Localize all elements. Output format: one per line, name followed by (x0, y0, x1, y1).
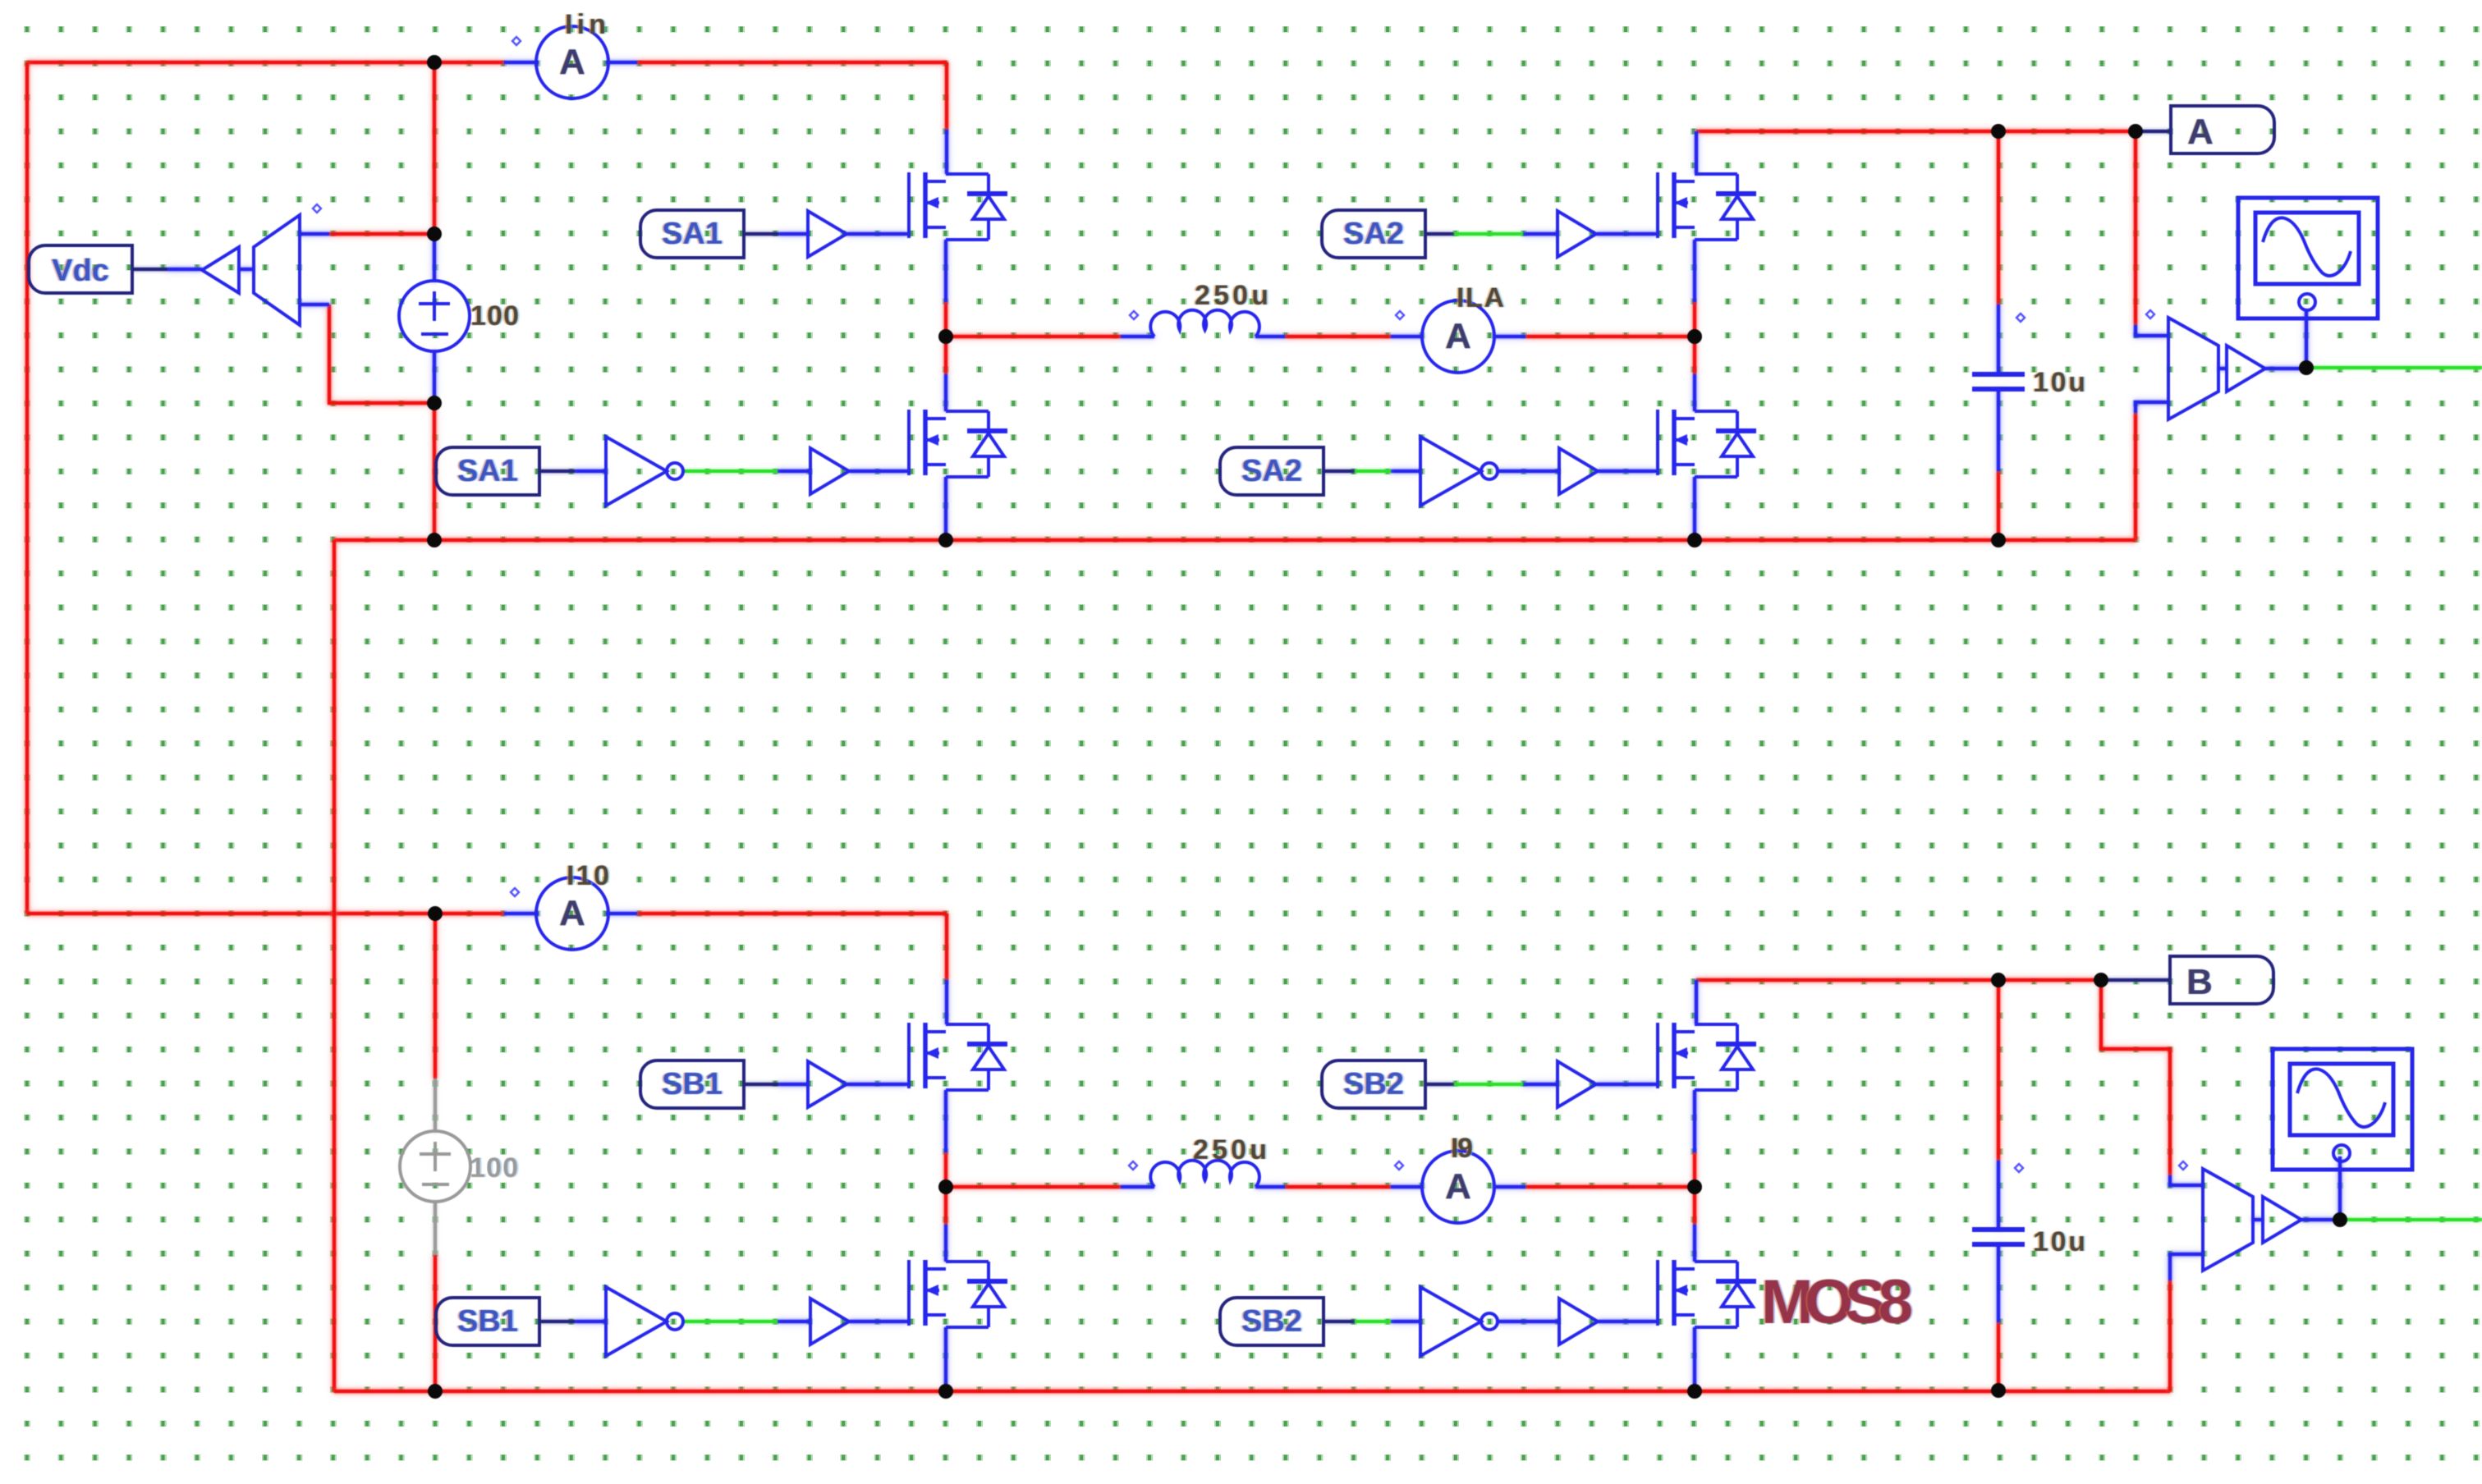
svg-text:I10: I10 (567, 860, 609, 891)
svg-text:MOS8: MOS8 (1761, 1267, 1913, 1337)
wire SA2 inv in (1391, 469, 1420, 473)
wire SA1 low green (683, 469, 778, 473)
wire SA1 low buffer in (778, 469, 810, 473)
mosfet Q7 (1658, 1023, 1756, 1090)
wire pin sensor VS2 minus (2136, 402, 2168, 413)
buffer SA2 (1558, 211, 1596, 257)
wire SA2 label stub (1425, 232, 1454, 236)
wire SA1 inv in (575, 469, 606, 473)
wire pin ammeter ILA left (1391, 335, 1424, 338)
label SB1 (640, 1060, 744, 1108)
svg-text:100: 100 (470, 1152, 518, 1184)
wire pin leg B1 low drain (944, 1225, 947, 1262)
wire pin leg A2 drain (1695, 131, 1698, 174)
wire cap C1 top column (1997, 131, 2000, 305)
label SA2 low (1220, 447, 1324, 495)
inductor L1 (1150, 310, 1259, 337)
wire probe A to scope (2305, 309, 2308, 369)
wire pin cap C2 top (1997, 1161, 2000, 1230)
wire SA2 green (1454, 232, 1523, 236)
mosfet Q5 (909, 1023, 1007, 1090)
wire SA2 gate (1596, 232, 1656, 236)
junction node 20 (2094, 973, 2108, 987)
junction node 6 (938, 533, 953, 547)
marker ILA (1396, 311, 1404, 319)
svg-text:SB2: SB2 (1343, 1067, 1404, 1102)
wire border to I10 row (27, 912, 504, 915)
wire SB1 inv in (575, 1320, 606, 1323)
inductor L2 (1150, 1161, 1259, 1187)
junction node 11 (1991, 533, 2006, 547)
mosfet Q1 (909, 172, 1007, 240)
wire V2 top column (434, 914, 437, 1079)
capacitor C2 (1972, 1230, 2025, 1244)
wire I10 row to bridge B (637, 914, 947, 980)
voltage sensor VS2 (2168, 318, 2218, 419)
junction node 8 (1687, 533, 1702, 547)
wire SB2 low buffer in (1498, 1320, 1559, 1323)
wire leg B2 mid upper (1693, 1152, 1696, 1187)
wire ammeter I9 to leg B2 (1525, 1185, 1695, 1189)
wire pin leg B2 drain (1695, 980, 1698, 1024)
mosfet Q4 (1658, 410, 1756, 477)
junction node 2 (427, 227, 442, 241)
wire pin inductor L2 right (1255, 1185, 1285, 1189)
wire pin leg B2 low drain (1693, 1225, 1696, 1262)
wire pin leg B2 source (1693, 1090, 1696, 1152)
wire sensor VS1 out (239, 268, 254, 271)
voltage sensor VS3 (2203, 1169, 2253, 1271)
junction node 18 (1687, 1384, 1702, 1399)
svg-text:SA1: SA1 (662, 217, 723, 251)
gain U1 (202, 247, 239, 293)
wire probe B to scope (2338, 1157, 2342, 1220)
wire sensor VS1 plus to node (329, 232, 434, 236)
svg-text:SB2: SB2 (1241, 1304, 1302, 1339)
junction node 4 (427, 533, 442, 547)
wire gain A out (2265, 367, 2306, 370)
wire top dc+ bus right of ammeter Iin (637, 62, 947, 130)
wire pin V1 minus (433, 350, 436, 403)
wire output A signal (2306, 366, 2482, 369)
wire SB2 green (1454, 1083, 1523, 1086)
wire pin cap C1 top (1997, 305, 2000, 374)
wire top rail A right (1696, 130, 2136, 133)
junction node 22 (2333, 1212, 2347, 1227)
wire Vdc label stub (132, 268, 167, 271)
marker VS2 (2146, 310, 2154, 318)
wire inductor to ammeter ILA (1285, 335, 1391, 338)
svg-text:B: B (2186, 962, 2213, 1002)
wire SB1 label stub (744, 1083, 778, 1086)
wire cap C2 top column (1997, 980, 2000, 1161)
junction node 12 (2299, 360, 2314, 375)
label node B (2170, 956, 2273, 1004)
svg-text:A: A (2187, 112, 2214, 152)
mosfet Q3 (1658, 172, 1756, 240)
wire pin cap C1 bottom (1997, 389, 2000, 471)
wire phase B to inductor (946, 1185, 1121, 1189)
wire SB1 low buffer in (778, 1320, 810, 1323)
junction node 5 (938, 329, 953, 344)
buffer SA2 low (1559, 448, 1598, 494)
wire SB2 low label stub (1324, 1320, 1355, 1323)
svg-text:SA2: SA2 (1241, 454, 1302, 488)
svg-text:I9: I9 (1451, 1133, 1473, 1164)
wire pin leg B1 drain (945, 980, 948, 1024)
marker L1 (1130, 311, 1138, 319)
marker Iin (512, 37, 521, 45)
wire leg B1 mid lower (944, 1187, 947, 1225)
wire negative bus drop (333, 540, 336, 1391)
wire Vdc gain in (167, 268, 202, 271)
wire SA1 low label stub (539, 469, 575, 473)
wire ammeter ILA to leg A2 (1525, 335, 1695, 338)
inverter SB2 (1420, 1287, 1498, 1356)
marker VS3 (2179, 1161, 2187, 1170)
buffer SB1 low (810, 1298, 849, 1344)
wire pin ammeter Iin right (606, 61, 637, 64)
wire SA2 low green (1355, 469, 1391, 473)
wire sensor VS3 to gain (2252, 1218, 2263, 1221)
wire output B signal (2340, 1218, 2482, 1221)
wire cap C1 bottom column (1997, 471, 2000, 540)
junction node 1 (427, 55, 442, 70)
svg-text:10u: 10u (2033, 1226, 2085, 1257)
wire sensor VS1 minus path (329, 305, 434, 403)
wire pin sensor VS3 plus (2170, 1175, 2203, 1185)
wire pin leg A2 source (1693, 240, 1696, 302)
marker I9 (1395, 1161, 1403, 1170)
wire pin ammeter I9 right (1493, 1185, 1525, 1189)
wire SA1 low gate (849, 469, 907, 473)
wire bottom rail B (334, 1390, 2170, 1393)
wire pin leg B1 source (944, 1090, 947, 1152)
wire pin V1 plus (433, 234, 436, 282)
wire leg A1 mid lower (944, 337, 947, 374)
wire pin leg A2 low drain (1693, 374, 1696, 411)
wire rail to sensor VS2 bottom (2134, 413, 2137, 540)
wire leg A1 mid upper (944, 302, 947, 337)
gain B (2263, 1197, 2301, 1243)
ammeter ILA (1422, 300, 1494, 373)
wire cap C2 bottom column (1997, 1322, 2000, 1391)
scope B (2273, 1049, 2412, 1170)
wire SB1 gate (846, 1083, 907, 1086)
wire pin leg B1 low source (944, 1327, 947, 1391)
wire pin inductor L2 left (1121, 1185, 1154, 1189)
inverter SA2 (1420, 437, 1498, 506)
wire SB2 gate (1596, 1083, 1656, 1086)
wire SA2 low gate (1598, 469, 1656, 473)
capacitor C1 (1972, 374, 2025, 389)
svg-text:SA1: SA1 (457, 454, 518, 488)
wire left border dc+ down (25, 62, 29, 914)
wire SB2 buffer in (1523, 1083, 1558, 1086)
wire SB1 low gate (849, 1320, 907, 1323)
wire top rail B right (1696, 978, 2101, 982)
scope A (2238, 198, 2378, 318)
junction node 14 (428, 1384, 443, 1399)
wire phase A to inductor (946, 335, 1121, 338)
wire node A to sensor VS2 top (2134, 131, 2137, 325)
gain A (2227, 346, 2265, 392)
voltage sensor VS1 (254, 215, 300, 325)
marker C1 (2016, 314, 2025, 322)
buffer SB1 (808, 1061, 846, 1107)
junction node 13 (428, 906, 443, 921)
svg-text:SA2: SA2 (1343, 217, 1404, 251)
wire SA1 label stub (744, 232, 778, 236)
junction node 7 (1687, 329, 1702, 344)
wire SB1 low label stub (539, 1320, 575, 1323)
ammeter Iin (536, 26, 608, 98)
wire pin ammeter I10 left (504, 912, 539, 915)
svg-text:ILA: ILA (1457, 282, 1504, 314)
wire SA1 gate (846, 232, 907, 236)
wire SA2 buffer in (1523, 232, 1558, 236)
svg-text:Vdc: Vdc (52, 254, 109, 288)
wire SB1 low green (683, 1320, 778, 1323)
wire pin leg B2 low source (1693, 1327, 1696, 1391)
junction node 19 (1991, 973, 2006, 987)
label Vdc (29, 245, 132, 293)
wire pin leg A1 source (944, 240, 947, 302)
svg-text:SB1: SB1 (457, 1304, 518, 1339)
wire SA2 low label stub (1324, 469, 1355, 473)
marker C2 (2015, 1164, 2023, 1172)
wire pin leg A1 low drain (944, 374, 947, 411)
buffer SA1 low (810, 448, 849, 494)
junction node 15 (938, 1179, 953, 1194)
label SA1 low (436, 447, 539, 495)
buffer SB2 low (1559, 1298, 1598, 1344)
wire V2 bottom to rail B (434, 1255, 437, 1391)
wire pin leg A1 drain (945, 130, 948, 174)
junction node 10 (2128, 124, 2143, 139)
svg-text:10u: 10u (2033, 367, 2085, 398)
junction node 17 (1687, 1179, 1702, 1194)
buffer SA1 (808, 211, 846, 257)
wire pin ammeter I10 right (606, 912, 637, 915)
wire rail to sensor VS3 bottom (2168, 1280, 2172, 1391)
wire leg A2 mid upper (1693, 302, 1696, 337)
wire pin leg A1 low source (944, 477, 947, 540)
wire pin ammeter Iin left (504, 61, 539, 64)
wire pin sensor VS1 minus (300, 303, 329, 306)
label SB1 low (436, 1298, 539, 1345)
wire SB2 low gate (1598, 1320, 1656, 1323)
wire bottom rail A (334, 538, 2136, 542)
wire pin V2 minus gray (434, 1202, 437, 1255)
wire pin V2 plus gray (434, 1079, 437, 1132)
label node A (2171, 106, 2274, 153)
wire pin sensor VS1 plus (300, 232, 329, 236)
wire V1 bottom to rail (433, 403, 436, 540)
junction node 9 (1991, 124, 2006, 139)
wire inductor L2 to ammeter I9 (1285, 1185, 1391, 1189)
label SA2 (1322, 210, 1425, 258)
wire pin inductor L1 left (1121, 335, 1154, 338)
wire leg B1 mid upper (944, 1152, 947, 1187)
junction node 16 (938, 1384, 953, 1399)
wire SA1 buffer in (778, 232, 808, 236)
marker I10 (511, 888, 519, 896)
mosfet Q2 (909, 410, 1007, 477)
wire node B to sensor VS3 top (2101, 980, 2170, 1175)
junction node 3 (427, 396, 442, 410)
marker L2 (1129, 1161, 1137, 1170)
wire top dc+ bus left (27, 61, 504, 64)
wire SA2 low buffer in (1498, 469, 1559, 473)
ammeter I9 (1422, 1151, 1494, 1223)
wire pin ammeter I9 left (1391, 1185, 1424, 1189)
wire node B label stub (2101, 978, 2170, 982)
wire leg B2 mid lower (1693, 1187, 1696, 1225)
mosfet Q6 (909, 1260, 1007, 1327)
wire SB2 low green (1355, 1320, 1391, 1323)
wire sensor VS2 to gain (2218, 367, 2227, 370)
wire pin sensor VS2 plus (2136, 325, 2168, 336)
svg-text:100: 100 (470, 300, 519, 332)
wire node A label stub (2136, 130, 2171, 133)
inverter SB1 (606, 1287, 683, 1356)
label SB2 low (1220, 1298, 1324, 1345)
wire V1 top node column (433, 62, 436, 234)
label SB2 (1322, 1060, 1425, 1108)
svg-text:SB1: SB1 (662, 1067, 723, 1102)
voltage source V2 gray (400, 1131, 470, 1202)
wire leg A2 mid lower (1693, 337, 1696, 374)
voltage source V1 (399, 281, 470, 351)
mosfet Q8 (1658, 1260, 1756, 1327)
ammeter I10 (536, 877, 608, 950)
wire gain B out (2301, 1218, 2340, 1221)
wire pin cap C2 bottom (1997, 1244, 2000, 1322)
wire SB1 buffer in (778, 1083, 808, 1086)
junction node 21 (1991, 1383, 2006, 1398)
marker VS1 (313, 204, 321, 213)
label SA1 (640, 210, 744, 258)
wire SB2 label stub (1425, 1083, 1454, 1086)
inverter SA1 (606, 437, 683, 506)
buffer SB2 (1558, 1061, 1596, 1107)
wire pin sensor VS3 minus (2170, 1254, 2203, 1280)
wire pin leg A2 low source (1693, 477, 1696, 540)
wire SB2 inv in (1391, 1320, 1420, 1323)
wire pin ammeter ILA right (1493, 335, 1525, 338)
wire pin inductor L1 right (1255, 335, 1285, 338)
